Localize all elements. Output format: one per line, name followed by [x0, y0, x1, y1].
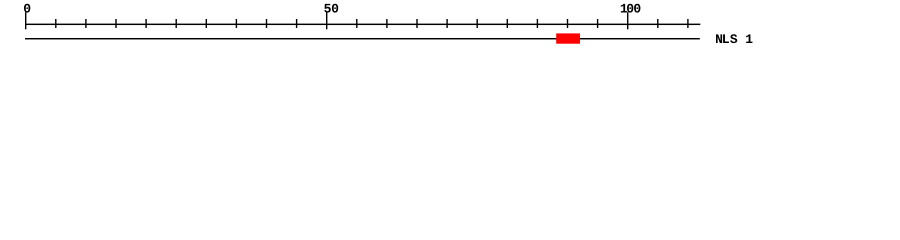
tick 10	[85, 19, 86, 28]
tick 0 (major)	[25, 12, 26, 29]
label NLS 1	[716, 34, 752, 43]
tick 70	[446, 19, 447, 28]
label 0	[24, 4, 30, 13]
tick 25	[176, 19, 177, 28]
ruler line	[25, 24, 700, 25]
tick 20	[145, 19, 146, 28]
tick 15	[115, 19, 116, 28]
tick 90	[567, 19, 568, 28]
tick 50 (major)	[326, 12, 327, 29]
tick 100 (major)	[627, 12, 628, 29]
tick 75	[477, 19, 478, 28]
tick 110	[687, 19, 688, 28]
sequence line	[25, 38, 700, 39]
match box NLS 1 (red)	[556, 33, 580, 43]
tick 45	[296, 19, 297, 28]
tick 105	[657, 19, 658, 28]
tick 55	[356, 19, 357, 28]
tick 5	[55, 19, 56, 28]
label 50	[324, 4, 338, 13]
tick 65	[416, 19, 417, 28]
label 100	[621, 4, 641, 13]
tick 85	[537, 19, 538, 28]
tick 80	[507, 19, 508, 28]
tick 60	[386, 19, 387, 28]
tick 30	[206, 19, 207, 28]
tick 35	[236, 19, 237, 28]
tick 95	[597, 19, 598, 28]
tick 40	[266, 19, 267, 28]
